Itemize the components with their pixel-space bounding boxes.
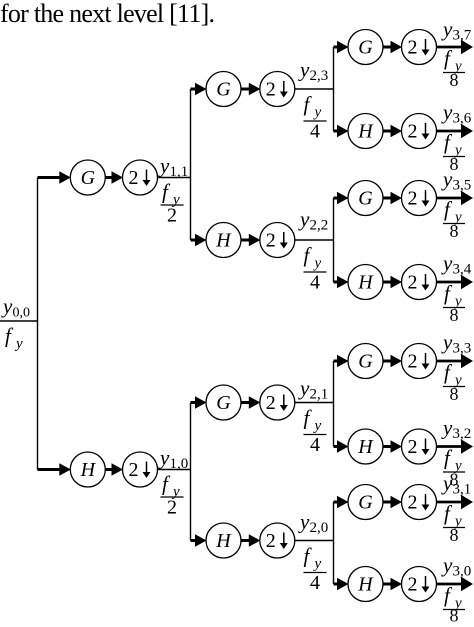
wire+arrow into H (y3,6)	[334, 130, 340, 133]
svg-text:f: f	[304, 544, 313, 568]
svg-text:G: G	[358, 188, 373, 210]
filter G (y2,1)	[206, 385, 241, 420]
downsampler 2v (y3,2)	[402, 429, 437, 464]
wire out of downsampler (y2,0)	[295, 540, 334, 542]
svg-text:y: y	[441, 100, 453, 124]
svg-text:f: f	[444, 583, 453, 607]
filter H (y3,4)	[348, 265, 383, 300]
arrow G->downsampler (y2,1)	[241, 401, 251, 404]
svg-text:2: 2	[167, 497, 177, 519]
branch vertical wire level3 #2	[333, 198, 335, 282]
input wire node y0,0	[0, 320, 38, 322]
svg-text:2: 2	[266, 530, 276, 552]
svg-text:y: y	[441, 553, 453, 577]
arrow H->downsampler (y2,0)	[241, 539, 251, 542]
svg-text:2,0: 2,0	[310, 520, 329, 536]
svg-text:2: 2	[167, 205, 177, 227]
svg-text:y: y	[158, 154, 170, 178]
branch vertical wire level3 #4	[333, 502, 335, 584]
svg-text:y: y	[441, 416, 453, 440]
svg-text:2: 2	[408, 37, 418, 59]
svg-text:y: y	[441, 251, 453, 275]
wire+arrow into H (y3,2)	[334, 445, 340, 448]
svg-text:H: H	[215, 530, 232, 552]
svg-text:G: G	[358, 492, 373, 514]
output arrow (y3,4)	[437, 281, 462, 284]
svg-text:3,0: 3,0	[453, 564, 472, 580]
svg-text:3,1: 3,1	[453, 482, 472, 498]
downsampler 2v (y2,1)	[260, 385, 295, 420]
downsampler 2v (y3,0)	[402, 567, 437, 602]
wire+arrow into G (y2,1)	[191, 401, 198, 404]
svg-text:2,1: 2,1	[310, 387, 329, 403]
downsampler 2v (y3,6)	[402, 114, 437, 149]
output arrow (y3,0)	[437, 583, 462, 586]
svg-text:y: y	[1, 294, 13, 318]
wire+arrow into G (y3,5)	[334, 197, 340, 200]
filter H (y2,2)	[206, 223, 241, 258]
filter H (y3,2)	[348, 429, 383, 464]
downsampler 2v (y2,3)	[260, 72, 295, 107]
svg-text:y: y	[158, 446, 170, 470]
arrow G->downsampler (y3,5)	[383, 197, 393, 200]
svg-text:f: f	[304, 243, 313, 267]
output arrow (y3,5)	[437, 197, 462, 200]
filter G (y1,1)	[70, 160, 105, 195]
svg-text:y: y	[441, 471, 453, 495]
branch vertical wire level3 #3	[333, 361, 335, 447]
svg-text:2: 2	[408, 436, 418, 458]
svg-text:f: f	[444, 501, 453, 525]
wire+arrow into H (y3,4)	[334, 281, 340, 284]
downsampler 2v (y1,0)	[123, 452, 158, 487]
output arrow (y3,1)	[437, 501, 462, 504]
svg-text:y: y	[298, 376, 310, 400]
wire+arrow into G (y1,1)	[38, 176, 62, 179]
svg-text:H: H	[215, 230, 232, 252]
svg-text:f: f	[162, 472, 171, 496]
output arrow (y3,3)	[437, 360, 462, 363]
svg-text:1,0: 1,0	[170, 456, 189, 472]
filter G (y3,3)	[348, 344, 383, 379]
svg-text:f: f	[304, 406, 313, 430]
wire out of downsampler (y2,3)	[295, 88, 334, 90]
svg-text:f: f	[444, 46, 453, 70]
arrow H->downsampler (y3,0)	[383, 583, 393, 586]
svg-text:y: y	[298, 207, 310, 231]
wire out of downsampler (y2,2)	[295, 239, 334, 241]
arrow G->downsampler (y1,1)	[105, 176, 113, 179]
svg-text:2: 2	[266, 392, 276, 414]
output arrow (y3,6)	[437, 130, 462, 133]
svg-text:G: G	[216, 392, 231, 414]
output arrow (y3,2)	[437, 445, 462, 448]
arrow H->downsampler (y2,2)	[241, 239, 251, 242]
svg-text:4: 4	[310, 572, 320, 594]
svg-text:f: f	[444, 197, 453, 221]
filter H (y2,0)	[206, 523, 241, 558]
svg-text:4: 4	[310, 434, 320, 456]
svg-text:3,2: 3,2	[453, 426, 472, 442]
wire out of downsampler (y1,1)	[158, 177, 191, 179]
svg-text:8: 8	[450, 305, 459, 325]
svg-text:G: G	[358, 37, 373, 59]
arrow G->downsampler (y2,3)	[241, 88, 251, 91]
svg-text:y: y	[441, 17, 453, 41]
svg-text:f: f	[444, 360, 453, 384]
svg-text:f: f	[444, 446, 453, 470]
filter G (y3,5)	[348, 181, 383, 216]
svg-text:y: y	[313, 556, 322, 572]
svg-text:0,0: 0,0	[13, 306, 31, 321]
svg-text:y: y	[441, 167, 453, 191]
svg-text:H: H	[357, 436, 374, 458]
svg-text:y: y	[441, 330, 453, 354]
filter H (y1,0)	[70, 452, 105, 487]
svg-text:2: 2	[266, 79, 276, 101]
svg-text:3,3: 3,3	[453, 341, 472, 357]
arrow G->downsampler (y3,7)	[383, 46, 393, 49]
svg-text:4: 4	[310, 121, 320, 143]
svg-text:2: 2	[408, 574, 418, 596]
filter G (y3,1)	[348, 485, 383, 520]
svg-text:2,3: 2,3	[310, 68, 329, 84]
svg-text:y: y	[313, 418, 322, 434]
svg-text:y: y	[313, 105, 322, 121]
svg-text:f: f	[162, 180, 171, 204]
branch vertical wire level2 top	[190, 89, 192, 240]
svg-text:f: f	[304, 92, 313, 116]
svg-text:2: 2	[408, 121, 418, 143]
svg-text:8: 8	[450, 384, 459, 404]
wire+arrow into H (y2,0)	[191, 539, 198, 542]
svg-text:y: y	[313, 256, 322, 272]
output arrow (y3,7)	[437, 46, 462, 49]
downsampler 2v (y3,3)	[402, 344, 437, 379]
svg-text:2: 2	[408, 351, 418, 373]
filter H (y3,6)	[348, 114, 383, 149]
svg-text:H: H	[80, 459, 97, 481]
svg-text:8: 8	[450, 525, 459, 545]
wire+arrow into H (y3,0)	[334, 583, 340, 586]
svg-text:G: G	[358, 351, 373, 373]
downsampler 2v (y3,5)	[402, 181, 437, 216]
svg-text:1,1: 1,1	[170, 164, 189, 180]
branch vertical wire level2 bottom	[190, 403, 192, 541]
svg-text:2: 2	[408, 492, 418, 514]
svg-text:3,7: 3,7	[453, 28, 472, 44]
svg-text:3,4: 3,4	[453, 262, 472, 278]
svg-text:y: y	[14, 336, 23, 352]
downsampler 2v (y3,1)	[402, 485, 437, 520]
wire+arrow into H (y1,0)	[38, 468, 62, 471]
arrow G->downsampler (y3,3)	[383, 360, 393, 363]
svg-text:8: 8	[450, 221, 459, 241]
filter G (y3,7)	[348, 30, 383, 65]
svg-text:G: G	[216, 79, 231, 101]
wire out of downsampler (y1,0)	[158, 469, 191, 471]
svg-text:y: y	[298, 510, 310, 534]
downsampler 2v (y3,4)	[402, 265, 437, 300]
svg-text:f: f	[444, 281, 453, 305]
svg-text:y: y	[298, 58, 310, 82]
svg-text:2: 2	[129, 459, 139, 481]
svg-text:G: G	[81, 167, 96, 189]
downsampler 2v (y3,7)	[402, 30, 437, 65]
svg-text:2: 2	[266, 230, 276, 252]
filter G (y2,3)	[206, 72, 241, 107]
svg-text:2: 2	[408, 272, 418, 294]
splitter vertical wire level1	[37, 178, 39, 470]
svg-text:3,5: 3,5	[453, 178, 472, 194]
wire+arrow into G (y3,1)	[334, 501, 340, 504]
branch vertical wire level3 #1	[333, 47, 335, 131]
svg-text:H: H	[357, 574, 374, 596]
svg-text:2: 2	[129, 167, 139, 189]
filter H (y3,0)	[348, 567, 383, 602]
svg-text:f: f	[444, 130, 453, 154]
svg-text:H: H	[357, 121, 374, 143]
wire out of downsampler (y2,1)	[295, 402, 334, 404]
svg-text:f: f	[5, 324, 14, 348]
downsampler 2v (y2,0)	[260, 523, 295, 558]
svg-text:3,6: 3,6	[453, 111, 472, 127]
arrow H->downsampler (y3,6)	[383, 130, 393, 133]
svg-text:for the next level [11].: for the next level [11].	[0, 0, 214, 28]
wire+arrow into G (y3,3)	[334, 360, 340, 363]
downsampler 2v (y2,2)	[260, 223, 295, 258]
wire+arrow into G (y3,7)	[334, 46, 340, 49]
wire+arrow into G (y2,3)	[191, 88, 198, 91]
svg-text:H: H	[357, 272, 374, 294]
svg-text:4: 4	[310, 272, 320, 294]
arrow H->downsampler (y1,0)	[105, 468, 113, 471]
wire+arrow into H (y2,2)	[191, 239, 198, 242]
downsampler 2v (y1,1)	[123, 160, 158, 195]
svg-text:8: 8	[450, 606, 459, 623]
svg-text:2: 2	[408, 188, 418, 210]
svg-text:2,2: 2,2	[310, 218, 329, 234]
arrow H->downsampler (y3,2)	[383, 445, 393, 448]
arrow H->downsampler (y3,4)	[383, 281, 393, 284]
svg-text:8: 8	[450, 70, 459, 90]
arrow G->downsampler (y3,1)	[383, 501, 393, 504]
